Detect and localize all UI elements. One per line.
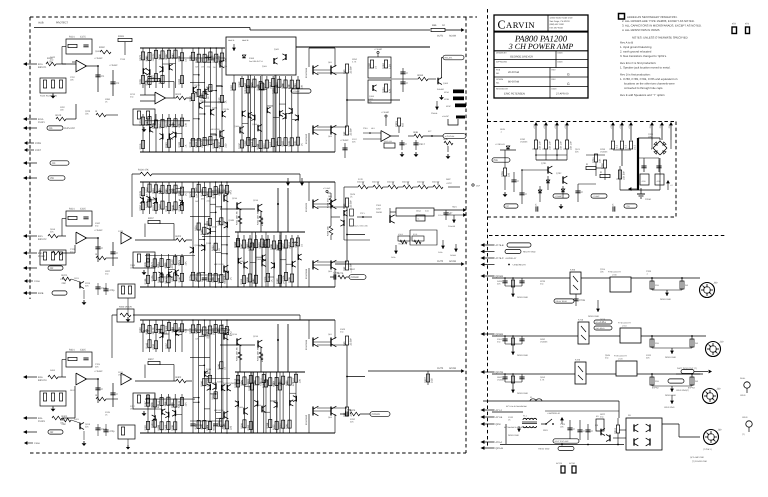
channel 3 emitter rail wire xyxy=(346,345,348,407)
channel 3 transistor Q334 xyxy=(215,383,217,389)
channel 2 resistor R2201 xyxy=(191,189,194,197)
channel 1 aux column 3 xyxy=(155,114,157,152)
channel 1 stage column 1 wire xyxy=(192,48,194,152)
svg-text:22K: 22K xyxy=(85,285,89,288)
svg-text:C9ANB: C9ANB xyxy=(431,112,438,115)
svg-text:MJ15024: MJ15024 xyxy=(305,202,308,212)
channel 2 output connector pill CONN2 xyxy=(349,275,366,280)
channel 1 aux transistor xyxy=(149,69,151,75)
svg-text:C: C xyxy=(581,191,583,194)
svg-text:20-00744: 20-00744 xyxy=(508,71,520,74)
channel 2 aux interconnect xyxy=(176,187,183,189)
svg-text:470p: 470p xyxy=(109,430,115,433)
svg-text:Q189: Q189 xyxy=(130,264,136,267)
svg-text:C: C xyxy=(116,252,118,255)
svg-text:3 CH POWER AMP: 3 CH POWER AMP xyxy=(508,42,574,51)
svg-text:R: R xyxy=(586,163,588,166)
channel 1 rail extension bottom xyxy=(220,151,335,153)
svg-text:SPKR GND: SPKR GND xyxy=(665,394,676,397)
svg-text:C268: C268 xyxy=(646,270,652,273)
svg-text:22Ω: 22Ω xyxy=(655,284,659,287)
channel 1 interconnect wire xyxy=(210,134,216,136)
svg-text:R148: R148 xyxy=(146,342,149,348)
channel 2 predriver transistor Q216 xyxy=(236,202,238,209)
power supply +7JUMP pill xyxy=(553,194,569,198)
svg-text:R290: R290 xyxy=(178,78,181,84)
svg-text:1K: 1K xyxy=(300,244,303,247)
power supply bridge dc top wire xyxy=(659,139,661,142)
power supply resistor network xyxy=(586,166,596,169)
channel 3 resistor R3322 xyxy=(203,420,206,428)
svg-text:R307: R307 xyxy=(282,140,285,146)
svg-text:Q616: Q616 xyxy=(85,423,91,426)
svg-text:R62: R62 xyxy=(343,131,346,136)
svg-text:1. Speaker jack location moved: 1. Speaker jack location moved to metal. xyxy=(620,66,671,70)
svg-text:R126 47K: R126 47K xyxy=(138,169,149,172)
channel 1 mid resistor xyxy=(203,91,206,98)
svg-text:2W: 2W xyxy=(695,380,698,383)
ac mains top wire xyxy=(483,400,619,402)
channel 2 lower aux transistor xyxy=(261,255,263,261)
svg-text:+7JUMP: +7JUMP xyxy=(340,139,349,142)
svg-text:C79J5: C79J5 xyxy=(398,233,403,236)
svg-text:R302: R302 xyxy=(176,376,182,379)
svg-text:R513: R513 xyxy=(70,389,76,392)
svg-text:QC8: QC8 xyxy=(496,423,502,426)
channel 1 lower aux column 9 xyxy=(291,76,293,152)
power supply mid wires xyxy=(586,154,605,156)
svg-text:5W: 5W xyxy=(207,337,210,340)
svg-text:RELAY1: RELAY1 xyxy=(445,57,454,60)
channel 3 lower aux column 10 xyxy=(295,372,297,433)
channel 1 interconnect wire xyxy=(193,118,199,120)
svg-text:C317: C317 xyxy=(419,143,425,146)
power supply up arrow B1 xyxy=(611,122,615,125)
svg-text:Heat A: Heat A xyxy=(228,39,235,42)
channel 2 predriver bus xyxy=(235,231,305,233)
svg-text:R: R xyxy=(532,148,535,150)
channel 1 lower aux column 2 xyxy=(247,76,249,152)
channel 2 input arrow IN2- xyxy=(23,251,27,255)
svg-text:80-00744: 80-00744 xyxy=(508,81,520,84)
ac bottom wire xyxy=(505,424,507,444)
channel 2 collector wires xyxy=(308,182,310,201)
power supply left resistor R755 xyxy=(503,168,506,176)
channel 3 lower aux interconnect xyxy=(244,386,250,388)
channel 1 aux interconnect xyxy=(163,63,170,65)
svg-text:NF4: NF4 xyxy=(371,127,375,130)
channel 3 lower aux column 9 xyxy=(289,372,291,433)
svg-text:15K 1W: 15K 1W xyxy=(559,141,562,150)
svg-text:10K: 10K xyxy=(184,122,187,127)
svg-text:R395: R395 xyxy=(164,400,167,406)
svg-text:AC Line to transformer: AC Line to transformer xyxy=(506,405,527,408)
channel 2 relay wire right xyxy=(434,209,464,211)
svg-text:Q135: Q135 xyxy=(224,108,230,111)
svg-text:R398: R398 xyxy=(200,229,203,235)
channel 3 emitter resistor upper R60 0.33 5W xyxy=(345,336,348,345)
ac relay coil K9 xyxy=(596,419,604,431)
svg-text:R159: R159 xyxy=(368,63,371,69)
channel 3 aux interconnect xyxy=(175,413,182,415)
channel 2 net arrow RELAY xyxy=(446,214,463,216)
svg-text:2W: 2W xyxy=(685,284,688,287)
channel 3 predriver columns below outline xyxy=(237,372,239,433)
svg-text:22K: 22K xyxy=(95,366,99,369)
channel 1 aux transistor xyxy=(142,68,144,74)
channel 1 interconnect wire xyxy=(199,97,205,99)
svg-text:DATE: DATE xyxy=(558,61,564,64)
svg-text:1. C788, C789, C784, C785 and: 1. C788, C789, C784, C785 and equivalent… xyxy=(620,77,678,81)
channel 2 left box network xyxy=(118,284,135,298)
svg-text:G: G xyxy=(567,73,570,77)
svg-text:R157: R157 xyxy=(223,423,226,429)
channel 1 inner bus wires xyxy=(190,81,205,83)
svg-text:R: R xyxy=(96,253,98,256)
power supply cap C703 xyxy=(535,206,537,211)
channel 2 lower aux column 3 xyxy=(249,235,251,287)
svg-text:R368: R368 xyxy=(246,277,249,283)
channel 2 aux column 5 xyxy=(168,182,170,214)
channel 1 resistor R1152 xyxy=(220,139,223,147)
svg-text:5W: 5W xyxy=(201,198,204,201)
svg-text:3. ALL CAPACITORS IN MICROFARA: 3. ALL CAPACITORS IN MICROFARADS, EXCEPT… xyxy=(622,24,702,28)
channel 2 loop resistor A xyxy=(398,236,410,241)
channel 1 resistor R1151 xyxy=(220,53,223,61)
channel 2 lower aux interconnect xyxy=(286,263,292,265)
channel 1 transistor Q111 xyxy=(198,102,200,108)
channel 3 bias network box xyxy=(40,391,66,406)
svg-text:220: 220 xyxy=(229,425,232,430)
channel 2 relay cap xyxy=(445,210,447,220)
channel 1 resistor R1132 xyxy=(209,137,212,145)
svg-text:R108: R108 xyxy=(294,241,297,247)
svg-text:1K 2: 1K 2 xyxy=(633,144,636,150)
power supply left arrow xyxy=(628,187,631,191)
title block address divider xyxy=(547,15,549,31)
svg-text:R622: R622 xyxy=(600,413,606,416)
channel 3 interconnect wire xyxy=(193,401,199,403)
svg-text:DRAWN BY: DRAWN BY xyxy=(496,52,507,55)
channel 1 mid resistor xyxy=(220,95,223,102)
svg-text:R248: R248 xyxy=(139,190,142,196)
channel 1 protect pill AT9C xyxy=(455,104,466,108)
channel 3 stage column 6 wire xyxy=(220,320,222,433)
channel 2 aux column 1 xyxy=(142,182,144,214)
power supply up arrow C1 xyxy=(650,122,654,125)
svg-text:+7JUMP: +7JUMP xyxy=(94,370,103,373)
svg-text:17R: 17R xyxy=(50,177,55,180)
svg-text:K710: K710 xyxy=(578,319,584,322)
power supply bridge ac feed left xyxy=(651,142,653,149)
QC69b relay output wire xyxy=(589,335,620,337)
svg-text:22K: 22K xyxy=(575,151,579,154)
svg-text:RELAY REAR: RELAY REAR xyxy=(556,300,568,303)
channel 3 lower aux column 7 xyxy=(276,372,278,433)
notes checkbox icon xyxy=(619,14,625,20)
channel 2 predriver verticals xyxy=(277,188,279,232)
channel 2 output transistor lower MJL21194 xyxy=(312,261,314,270)
QC79b cluster ground xyxy=(511,390,515,393)
svg-text:+62/RELAY: +62/RELAY xyxy=(505,257,517,260)
channel 3 output node xyxy=(346,376,348,378)
svg-text:1N4003: 1N4003 xyxy=(118,374,126,377)
power supply -7JUMP pill xyxy=(591,194,607,198)
svg-text:C2D8: C2D8 xyxy=(34,280,40,283)
svg-text:C3R2: C3R2 xyxy=(376,204,381,207)
channel 1 op-amp U1B feedback resistor R107 xyxy=(148,78,160,81)
svg-text:R325: R325 xyxy=(146,79,149,85)
ac cap C910 xyxy=(587,424,589,440)
svg-text:C297: C297 xyxy=(70,76,76,79)
svg-text:REVISED BY: REVISED BY xyxy=(496,88,509,91)
channel 1 aux transistor xyxy=(162,134,164,140)
svg-text:(858) 487-1600: (858) 487-1600 xyxy=(550,23,565,26)
power supply box dashed bottom xyxy=(488,216,677,218)
svg-text:R175: R175 xyxy=(152,123,155,129)
channel 2 resistor R2202 xyxy=(191,272,194,280)
svg-text:R135: R135 xyxy=(105,411,111,414)
svg-text:R320 JR 470: R320 JR 470 xyxy=(119,306,133,309)
svg-text:Q116: Q116 xyxy=(206,368,212,371)
svg-text:R375: R375 xyxy=(206,329,209,335)
svg-text:+75V: +75V xyxy=(628,124,631,129)
channel 3 dual speaker jack xyxy=(744,382,750,388)
channel 1 driver transistor upper MJE15032 xyxy=(219,60,221,67)
channel 3 stage column 2 wire xyxy=(198,320,200,433)
channel 2 aux interconnect xyxy=(156,190,163,192)
channel 2 aux column 6 xyxy=(175,182,177,214)
ac arrow QC8 xyxy=(481,422,485,426)
svg-text:NO.: NO. xyxy=(496,72,500,75)
svg-text:R195: R195 xyxy=(189,141,192,147)
svg-text:QC69b: QC69b xyxy=(496,333,504,336)
channel 3 input resistor xyxy=(48,375,58,379)
power supply left gnd xyxy=(504,192,506,194)
channel 1 positive supply rail xyxy=(140,47,225,49)
svg-text:R399: R399 xyxy=(151,422,154,428)
QC79b speakon connector J20 xyxy=(703,389,718,404)
svg-text:GND REAR: GND REAR xyxy=(596,327,606,330)
svg-text:-75V: -75V xyxy=(649,124,652,129)
svg-text:DNP: DNP xyxy=(446,178,451,181)
channel 1 junction dot xyxy=(198,47,200,49)
channel 2 aux column 2 xyxy=(154,254,156,287)
channel 3 aux interconnect xyxy=(163,333,170,335)
channel 3 op-amp U3B xyxy=(121,373,132,385)
svg-text:+75V: +75V xyxy=(610,124,613,129)
channel 2 left box ground xyxy=(127,298,129,316)
svg-text:R36: R36 xyxy=(414,131,419,134)
svg-text:[T] COVER GND: [T] COVER GND xyxy=(692,460,708,463)
channel 3 aux transistor xyxy=(168,412,170,418)
svg-text:R283: R283 xyxy=(244,140,247,146)
channel 2 stage column 5 wire xyxy=(215,182,217,287)
svg-text:R105: R105 xyxy=(250,82,253,88)
svg-text:SPKR GND: SPKR GND xyxy=(508,434,519,437)
svg-text:SPKR GND: SPKR GND xyxy=(665,356,676,359)
channel 3 lower aux transistor xyxy=(289,400,291,406)
svg-text:R179: R179 xyxy=(152,327,155,333)
channel 2 stage column 4 wire xyxy=(209,182,211,287)
svg-text:R321: R321 xyxy=(240,380,243,386)
svg-text:C325: C325 xyxy=(80,349,86,352)
power supply up arrow A3 xyxy=(555,122,559,125)
svg-text:R394: R394 xyxy=(240,422,243,428)
svg-text:1K: 1K xyxy=(229,277,232,280)
channel 1 protect transistor Q159 xyxy=(372,85,374,91)
channel 1 resistor R1102 xyxy=(191,138,194,146)
svg-text:AT9-A: AT9-A xyxy=(496,441,503,444)
svg-text:R195: R195 xyxy=(139,120,142,126)
channel 1 resistor R1141 xyxy=(215,54,218,62)
channel 3 input ground xyxy=(52,407,54,409)
power supply group B dropper resistors xyxy=(611,141,614,149)
svg-text:R132: R132 xyxy=(195,57,198,63)
channel 1 lower aux transistor xyxy=(291,108,293,114)
svg-text:R160: R160 xyxy=(244,82,247,88)
svg-text:R302: R302 xyxy=(247,378,250,384)
channel 2 interconnect wire xyxy=(216,220,222,222)
channel 3 aux column 5 xyxy=(168,320,170,352)
channel 3 aux interconnect xyxy=(176,333,183,335)
svg-text:+7JUMP: +7JUMP xyxy=(381,111,390,114)
svg-text:APPROVED: APPROVED xyxy=(496,61,508,64)
ac power switch SW1 xyxy=(541,423,546,425)
channel 2 transistor Q222 xyxy=(204,245,206,251)
svg-text:22K: 22K xyxy=(352,141,356,144)
svg-text:MJE15033: MJE15033 xyxy=(214,409,224,412)
svg-text:4. ALL RESISTORS IN OHMS: 4. ALL RESISTORS IN OHMS xyxy=(622,28,660,32)
svg-text:Q587: Q587 xyxy=(95,50,101,53)
channel 1 output relay pill xyxy=(554,299,574,303)
svg-text:R151: R151 xyxy=(178,205,181,211)
svg-text:PB23R: PB23R xyxy=(376,211,383,214)
channel 2 lower aux column 2 xyxy=(243,235,245,287)
channel 2 mid resistor xyxy=(208,218,211,225)
svg-text:R251 15R 1W: R251 15R 1W xyxy=(235,346,238,361)
channel 1 clip pill resistor xyxy=(444,141,453,145)
svg-text:1N4003: 1N4003 xyxy=(520,141,528,144)
svg-text:4.7K: 4.7K xyxy=(352,61,357,64)
svg-text:R269: R269 xyxy=(172,188,175,194)
ac sense square 1 xyxy=(561,466,565,473)
svg-text:R755: R755 xyxy=(501,171,504,177)
channel 2 lower aux transistor xyxy=(297,254,299,260)
svg-text:1K: 1K xyxy=(184,144,187,147)
channel 1 outline stub wires xyxy=(250,75,252,152)
svg-text:MJL21194: MJL21194 xyxy=(305,268,308,279)
svg-text:R: R xyxy=(96,110,98,113)
svg-text:R214: R214 xyxy=(279,423,282,429)
channel 3 junction dot xyxy=(192,319,194,321)
ac resistor R910 xyxy=(616,425,619,433)
svg-text:R316: R316 xyxy=(159,54,162,60)
channel 1 interconnect wire xyxy=(199,95,205,97)
svg-text:R535: R535 xyxy=(500,128,506,131)
svg-text:4K7: 4K7 xyxy=(229,189,232,194)
svg-text:R321: R321 xyxy=(144,424,147,430)
svg-text:AT9B: AT9B xyxy=(444,98,450,101)
svg-text:1K: 1K xyxy=(207,96,210,99)
QC79b relay 20 xyxy=(575,362,586,384)
channel 3 spkr out arrow xyxy=(676,373,700,375)
svg-text:Q571: Q571 xyxy=(575,148,581,151)
svg-text:R252 15R 1W: R252 15R 1W xyxy=(256,346,259,361)
svg-text:AT9A: AT9A xyxy=(444,91,450,94)
svg-text:5W: 5W xyxy=(212,196,215,199)
output section dashed top xyxy=(489,235,726,237)
svg-text:R321: R321 xyxy=(62,415,68,418)
power supply filter cap C702 xyxy=(577,184,579,202)
channel 2 resistor R2241 xyxy=(214,187,217,195)
svg-text:Q702: Q702 xyxy=(556,172,562,175)
channel 2 transistor Q220 xyxy=(192,247,194,253)
channel 2 lower network xyxy=(96,256,106,260)
channel 1 base wires xyxy=(313,69,331,71)
svg-text:(T ONLY): (T ONLY) xyxy=(703,448,712,451)
channel 3 resistor R3352 xyxy=(220,418,223,426)
channel 2 driver transistor lower MJE15033 xyxy=(223,265,225,272)
channel 3 aux column 3 xyxy=(161,394,163,433)
channel 2 output coupling C201 xyxy=(330,276,334,278)
svg-text:R236: R236 xyxy=(282,83,285,89)
svg-text:R314: R314 xyxy=(201,140,204,146)
QC79b filter output wire xyxy=(637,373,703,375)
svg-text:1K: 1K xyxy=(224,100,227,103)
svg-text:R499: R499 xyxy=(497,280,503,283)
channel 2 junction dot xyxy=(215,181,217,183)
svg-text:R107: R107 xyxy=(234,241,237,247)
svg-text:K720: K720 xyxy=(575,359,581,362)
channel 2 lower aux column 8 xyxy=(279,235,281,287)
svg-text:2. earth ground relocated: 2. earth ground relocated xyxy=(620,50,652,54)
channel 1 protect down arrow xyxy=(435,107,439,110)
svg-text:D747: D747 xyxy=(130,405,136,408)
svg-text:CLIP1: CLIP1 xyxy=(38,121,45,124)
QC79b damping resistor 2 xyxy=(691,373,693,375)
channel 1 aux column 2 xyxy=(149,114,151,152)
channel 1 input arrow CHP+VCC with pill xyxy=(23,126,27,130)
svg-text:R158: R158 xyxy=(171,424,174,430)
svg-text:AT9C: AT9C xyxy=(446,105,452,108)
svg-text:C: C xyxy=(101,247,103,250)
channel 1 lower aux column 1 xyxy=(241,76,243,152)
channel 3 base wires xyxy=(313,341,331,343)
svg-text:C2D7: C2D7 xyxy=(35,149,42,152)
channel 2 interconnect wire xyxy=(199,272,205,274)
svg-text:+VCC: +VCC xyxy=(446,182,452,185)
wire channel1 top to R66 xyxy=(250,29,430,31)
svg-text:R386: R386 xyxy=(200,380,203,386)
channel 1 input ground xyxy=(52,94,54,96)
channel 2 resistor R2262 xyxy=(225,271,228,279)
power supply zener D701 xyxy=(539,186,541,202)
channel 2 output transistor upper MJ15024 xyxy=(312,200,314,209)
svg-text:SCHEM: SCHEM xyxy=(496,78,504,81)
svg-text:1W: 1W xyxy=(201,66,204,69)
channel 3 aux column 2 xyxy=(149,320,151,352)
svg-text:CGND: CGND xyxy=(645,198,652,201)
power supply cap label boxes xyxy=(640,174,649,185)
channel 3 T-option pill xyxy=(668,379,684,383)
channel 1 transistors inside outline xyxy=(273,58,275,64)
channel 2 stage column 6 wire xyxy=(220,182,222,287)
svg-text:CONN2: CONN2 xyxy=(351,276,360,279)
svg-text:R325: R325 xyxy=(164,424,167,430)
svg-text:ADDED AS SECONDARY OPERATION.: ADDED AS SECONDARY OPERATION. xyxy=(627,15,678,19)
QC59b signal wire xyxy=(492,277,570,279)
